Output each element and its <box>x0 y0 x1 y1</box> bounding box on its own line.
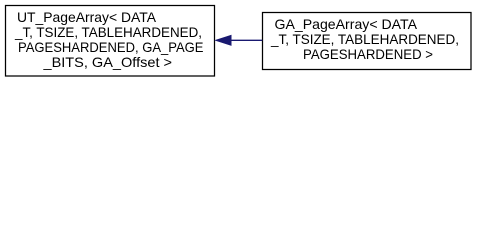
inheritance arrow head <box>216 35 231 45</box>
svg-text:_T, TSIZE, TABLEHARDENED,: _T, TSIZE, TABLEHARDENED, <box>14 24 202 40</box>
svg-text:_T, TSIZE, TABLEHARDENED,: _T, TSIZE, TABLEHARDENED, <box>270 31 459 47</box>
node box GA_PageArray (derived class) <box>263 13 472 70</box>
inheritance arrow shaft <box>230 39 262 41</box>
svg-text:GA_PageArray< DATA: GA_PageArray< DATA <box>275 16 418 32</box>
node box UT_PageArray (base class) <box>6 6 215 77</box>
svg-text:PAGESHARDENED >: PAGESHARDENED > <box>303 46 433 62</box>
svg-text:UT_PageArray< DATA: UT_PageArray< DATA <box>17 9 157 25</box>
svg-text:PAGESHARDENED, GA_PAGE: PAGESHARDENED, GA_PAGE <box>18 39 204 55</box>
svg-text:_BITS, GA_Offset >: _BITS, GA_Offset > <box>42 54 172 70</box>
